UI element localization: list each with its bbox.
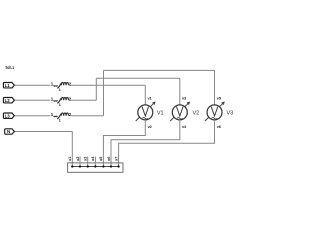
terminal N (5, 129, 15, 134)
wire L1 row to voltmeter V1 (14, 85, 145, 105)
terminal L3 (3, 113, 14, 118)
svg-text:v3: v3 (182, 96, 186, 100)
svg-text:1: 1 (59, 88, 61, 92)
svg-text:v5: v5 (217, 96, 221, 100)
wire N row to terminal strip (14, 132, 72, 167)
voltmeter U3 (V3) (205, 102, 224, 121)
wire V1 bottom v2 to terminal 5 (103, 120, 145, 167)
fuse F2 pin labels 1/2 (51, 97, 72, 108)
terminal stub 3 (87, 157, 89, 167)
fuse F2 row L2 (54, 98, 69, 104)
terminal stub 2 (79, 157, 81, 167)
svg-text:V2: V2 (193, 111, 200, 117)
terminal L2 (3, 98, 14, 103)
svg-text:v6: v6 (217, 125, 221, 129)
fuse F3 row L3 (54, 113, 69, 119)
terminal L1 (3, 83, 14, 88)
svg-text:1: 1 (59, 119, 61, 123)
voltmeter U1 (V1) (136, 102, 155, 121)
svg-text:1: 1 (59, 103, 61, 107)
wire V3 bottom v6 to terminal 7 (119, 120, 215, 167)
svg-text:v2: v2 (148, 125, 152, 129)
svg-text:V3: V3 (227, 111, 234, 117)
svg-text:N: N (7, 129, 10, 134)
svg-text:L3: L3 (5, 113, 11, 118)
svg-text:x2: x2 (76, 157, 80, 161)
junction dots terminals 1-7 (71, 165, 119, 167)
fuse F1 row L1 (54, 83, 69, 89)
svg-text:v1: v1 (148, 96, 152, 100)
svg-text:L1: L1 (5, 83, 11, 88)
svg-text:x5: x5 (99, 157, 103, 161)
fuse F1 pin labels 1/2 (51, 82, 72, 93)
svg-text:x1: x1 (68, 157, 72, 161)
svg-text:x6: x6 (107, 157, 111, 161)
wire L3 row riser to voltmeter V3 (14, 70, 214, 115)
svg-text:x3: x3 (84, 157, 88, 161)
voltmeter U2 (V2) (170, 102, 189, 121)
wire L2 row riser to voltmeter V2 (14, 78, 180, 105)
terminal stub 4 (94, 157, 96, 167)
svg-text:L2: L2 (5, 98, 11, 103)
svg-text:x7: x7 (114, 157, 118, 161)
bus bar inside strip (71, 166, 120, 168)
svg-text:Sch.1: Sch.1 (5, 65, 14, 70)
fuse F3 pin labels 1/2 (51, 112, 72, 123)
svg-text:V1: V1 (157, 111, 164, 117)
wire V2 bottom v4 to terminal 6 (111, 120, 180, 167)
terminal strip X1 (68, 163, 123, 172)
